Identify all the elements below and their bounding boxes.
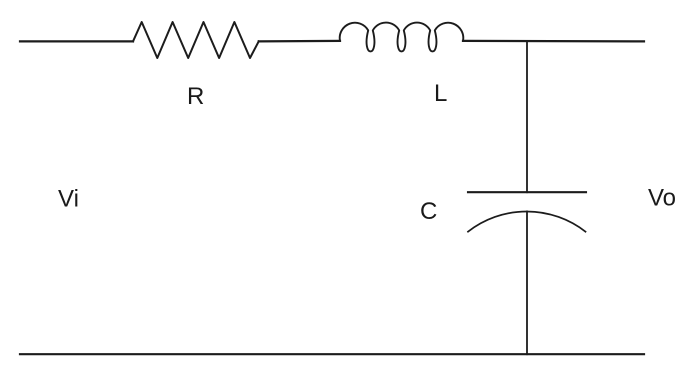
inductor L1 coil — [340, 23, 464, 52]
wire bottom rail — [20, 353, 644, 355]
resistor R1 zigzag — [133, 22, 259, 58]
wire top-left (input to resistor) — [20, 40, 133, 42]
wire inductor to top-right — [463, 40, 644, 43]
wire between resistor and inductor — [259, 40, 340, 43]
svg-text:L: L — [434, 80, 447, 107]
wire vertical from top rail node to capacitor — [526, 41, 528, 192]
capacitor C1 curved bottom plate — [468, 211, 586, 231]
wire vertical from capacitor to bottom rail — [526, 211, 528, 354]
svg-text:C: C — [420, 198, 437, 225]
capacitor C1 top plate — [468, 191, 586, 193]
svg-text:Vo: Vo — [648, 184, 676, 211]
svg-text:Vi: Vi — [58, 186, 79, 213]
svg-text:R: R — [187, 83, 204, 110]
